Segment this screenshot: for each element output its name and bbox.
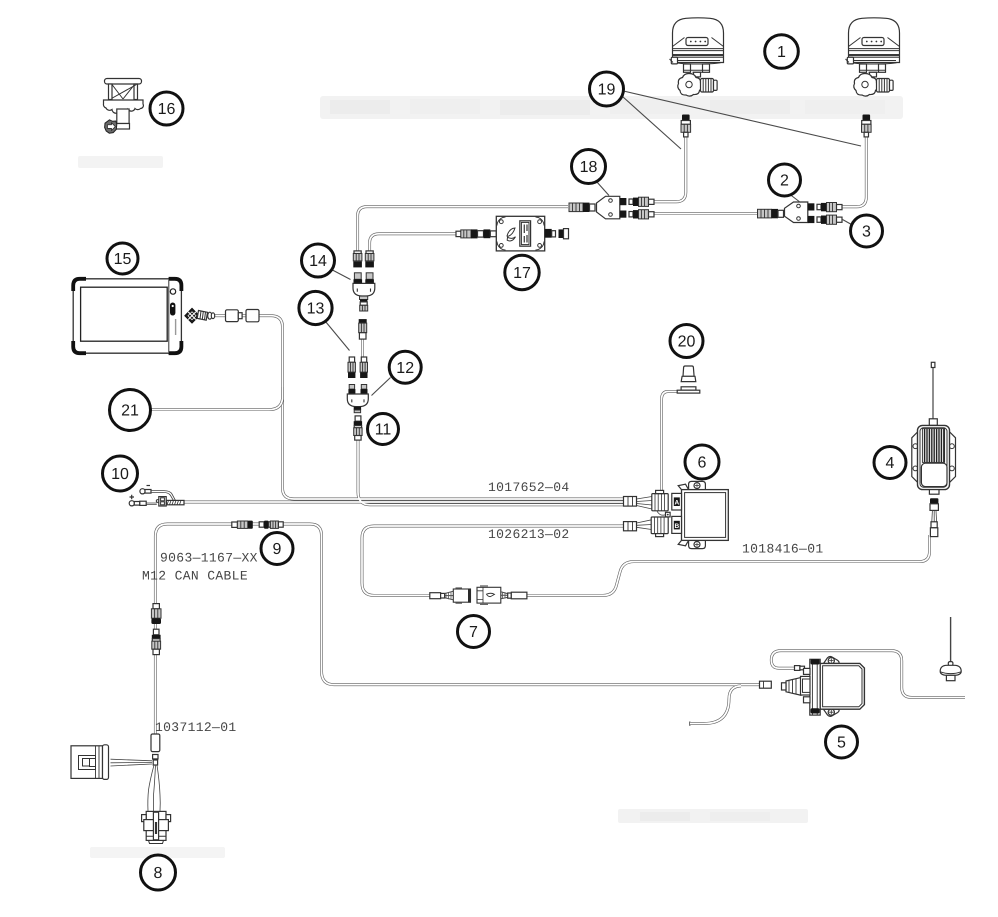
splitter 14 bottom port <box>360 296 368 299</box>
connector 3 loose mate <box>817 217 821 222</box>
harness 8 splayed wires to lamp socket <box>148 765 160 811</box>
display 15 right strip divider <box>168 280 170 352</box>
wire 1018416-01 from connector 7 to item 4 <box>525 535 930 595</box>
beacon 1 left <box>670 18 724 96</box>
wire module 17 left port to splitter 14 right port <box>370 234 458 252</box>
harness 8 inline ferrule <box>151 734 160 752</box>
connector 19 right stub <box>864 132 868 137</box>
module 6 plug B wires <box>637 520 652 530</box>
radio 4 mate plug black cap <box>930 498 938 504</box>
leader 19 to left drop <box>623 97 682 150</box>
callout 12 <box>389 351 421 383</box>
callout 7 <box>458 616 490 648</box>
watermark band top <box>320 96 903 119</box>
svg-text:19: 19 <box>598 82 616 99</box>
splitter 18 top-right mate connector <box>629 199 633 204</box>
connector 19 right cap <box>863 115 871 121</box>
svg-text:12: 12 <box>396 360 414 377</box>
module 17 body <box>496 216 544 251</box>
bracket 16 left leg <box>109 84 113 100</box>
callout 13 <box>299 291 332 324</box>
display 15 cable rings <box>208 312 212 319</box>
splitter 2 right ports <box>808 203 815 210</box>
callout 14 <box>302 244 335 277</box>
svg-text:A: A <box>674 499 679 506</box>
harness 8 upper inline connector <box>153 604 159 609</box>
connector 19 left collar <box>681 121 690 125</box>
connector 19 right ribbed body <box>862 124 872 132</box>
display 15 cable ferrite 2 <box>246 310 259 322</box>
callout 8 <box>141 855 176 890</box>
svg-text:15: 15 <box>114 251 132 268</box>
harness 8 socket keyway <box>153 812 158 840</box>
connector 7 right wire fan <box>501 592 508 599</box>
connector 11 <box>355 416 361 421</box>
splitter 2 left mate ribbed connector <box>758 209 772 218</box>
display 15 camera <box>170 289 175 294</box>
splitter 2 top-right mate connector <box>817 204 821 209</box>
svg-text:20: 20 <box>678 334 696 351</box>
svg-text:9: 9 <box>273 541 282 558</box>
radio 4 mate plug wires <box>932 511 937 522</box>
svg-text:2: 2 <box>780 173 789 190</box>
module 6 plug A boot <box>624 497 637 507</box>
antenna stem <box>946 675 955 680</box>
callout 21 <box>110 390 151 431</box>
svg-text:6: 6 <box>698 455 707 472</box>
connector 13 black band <box>348 373 355 379</box>
chain mate black band <box>360 373 367 379</box>
leader 19 to right drop <box>624 91 862 146</box>
callout 5 <box>826 726 858 758</box>
harness 8 left connector housing <box>71 746 103 779</box>
radio 4 right wing <box>949 432 955 483</box>
radio 4 mate plug body <box>930 504 938 511</box>
svg-text:B: B <box>674 523 679 530</box>
display 15 screen <box>81 287 168 341</box>
module 6 plug A pigtail <box>657 511 666 515</box>
callout 2 <box>769 164 801 196</box>
svg-text:1: 1 <box>777 44 786 61</box>
connector 13 cap <box>349 357 354 362</box>
controller 5 DB connector <box>801 676 811 695</box>
radio 4 antenna base <box>929 419 937 426</box>
svg-text:1026213—02: 1026213—02 <box>488 527 570 542</box>
callout 3 <box>851 215 883 247</box>
leader 3 <box>843 220 852 225</box>
controller 5 cable ferrule <box>760 681 772 688</box>
radio 4 grille <box>922 429 944 463</box>
module 6 plug A <box>652 494 668 511</box>
controller 5 bottom mounting ear <box>824 709 840 716</box>
leader 13 <box>326 322 350 351</box>
wire splitter 18 bottom-right to splitter 2 left <box>651 212 758 215</box>
splitter 12 top ports <box>349 385 354 390</box>
connector 7 left plug <box>453 589 470 602</box>
module 6 plug B boot <box>624 522 637 531</box>
bracket 16 knob <box>105 120 117 133</box>
radio 4 body <box>918 425 950 489</box>
wire splitter 14 chain to splitter 12 <box>361 330 364 358</box>
connector 19 left stub <box>684 132 688 137</box>
callout 6 <box>685 445 719 479</box>
battery plus lead <box>146 503 157 504</box>
leader 12 <box>372 378 391 396</box>
leader 14 <box>332 270 351 280</box>
radio 4 whip antenna <box>932 367 934 419</box>
display 15 black corner pads <box>73 279 86 291</box>
battery plus inline sleeve <box>140 501 146 505</box>
splitter 2 body <box>785 202 808 223</box>
callout 17 <box>505 255 539 289</box>
connector 9 right black band <box>264 521 269 529</box>
callout 9 <box>261 533 293 565</box>
leader 2 <box>790 195 801 203</box>
battery boot hatched <box>166 500 184 504</box>
module 6 plug B <box>651 517 668 534</box>
display 15 connector ribbed elbow <box>197 311 207 321</box>
connector 9 left collar <box>232 522 238 527</box>
antenna mount 20 flange <box>681 387 696 390</box>
battery minus ring terminal <box>140 489 145 494</box>
connector 7 right ferrule <box>508 593 512 598</box>
callout 4 <box>874 447 906 479</box>
module 17 corner tabs <box>497 217 544 250</box>
svg-text:14: 14 <box>309 253 327 270</box>
bracket 16 cross braces <box>112 85 137 100</box>
wire stub hook joining item 5 cable <box>689 722 691 726</box>
module 6 connector block B <box>672 516 682 533</box>
display 15 side label <box>175 319 177 335</box>
svg-text:16: 16 <box>158 101 176 118</box>
connector 13 ribbed body <box>348 362 355 372</box>
svg-text:18: 18 <box>580 159 598 176</box>
beacon 1 right <box>846 18 900 96</box>
bracket 16 knob arrow <box>108 123 116 131</box>
controller 5 left bracket plate <box>810 659 820 715</box>
callout 10 <box>103 456 138 491</box>
antenna mount 20 base plate <box>677 390 700 393</box>
harness 8 left connector fork slot <box>79 756 96 770</box>
connector 19 right collar <box>862 121 871 125</box>
callout 18 <box>572 150 606 184</box>
svg-text:M12 CAN CABLE: M12 CAN CABLE <box>142 569 248 584</box>
callout 19 <box>590 72 624 106</box>
chain mate cap <box>361 357 366 362</box>
svg-text:1018416—01: 1018416—01 <box>742 542 824 557</box>
controller 5 bracket corner pads <box>811 659 820 664</box>
bracket 16 stem <box>117 109 129 124</box>
module 17 logo <box>507 228 516 241</box>
wire CAN cable 9063-1167 from item 8 through connector 9 to item 5 <box>155 524 760 735</box>
connector 7 left ferrule <box>430 593 441 599</box>
splitter 14 body <box>353 283 375 296</box>
controller 5 mating plug wedge <box>786 678 801 696</box>
svg-text:8: 8 <box>154 865 163 882</box>
controller 5 main body <box>820 663 864 709</box>
connector chain lower half toward 12 <box>359 319 367 323</box>
display 15 connector diamond <box>185 308 200 323</box>
antenna cap <box>940 665 961 675</box>
bracket 16 top bar <box>105 79 142 85</box>
bracket 16 right leg <box>134 84 138 100</box>
wire 1026213-02 from module 6 plug B to connector 7 <box>362 526 624 595</box>
callout 11 <box>368 414 399 445</box>
harness 8 lower inline connector <box>153 629 159 635</box>
svg-text:4: 4 <box>886 455 895 472</box>
splitter 12 body <box>347 394 368 407</box>
connector 7 left wire fan <box>445 591 454 600</box>
antenna top nub <box>948 662 953 666</box>
harness 8 branch junction <box>153 755 158 759</box>
module 6 connector block A <box>672 493 682 510</box>
module 17 left mate connector <box>456 231 461 236</box>
svg-text:21: 21 <box>121 403 139 420</box>
svg-text:7: 7 <box>469 624 478 641</box>
wire left beacon drop to splitter 18 top-right <box>652 135 686 202</box>
svg-text:1037112—01: 1037112—01 <box>155 720 237 735</box>
module 6 plug A wires <box>637 497 653 510</box>
wire item 5 pigtail to GPS antenna <box>771 651 965 698</box>
splitter 18 bottom-right mate connector <box>629 212 633 217</box>
svg-text:17: 17 <box>513 265 531 282</box>
splitter 14 right upper mate connector <box>366 251 373 254</box>
connector 7 right housing <box>477 587 501 603</box>
wire callout 21 pigtail to display cable <box>151 387 283 410</box>
callout 16 <box>150 92 183 125</box>
splitter 18 right ports <box>620 198 627 205</box>
module 17 right port <box>545 229 552 238</box>
watermark band bottom <box>618 809 808 823</box>
bracket 16 scalloped clamp <box>103 100 143 113</box>
module 6 wing top-left <box>678 484 688 489</box>
connector 9 right ribbed body <box>270 521 278 528</box>
svg-text:5: 5 <box>837 735 846 752</box>
radio 4 left wing <box>912 432 918 483</box>
module 6 top mounting tab <box>689 481 706 489</box>
callout 15 <box>107 243 138 274</box>
splitter 14 bottom mate connector <box>360 302 367 305</box>
leader 18 <box>597 182 610 196</box>
antenna mount 20 boot upper block <box>683 366 694 376</box>
antenna mount 20 boot lower block <box>681 376 696 381</box>
svg-text:13: 13 <box>307 301 325 318</box>
display 15 power button <box>170 303 175 316</box>
battery fuse holder <box>156 500 159 503</box>
callout 20 <box>670 325 703 358</box>
connector 9 left black band <box>248 521 253 529</box>
splitter 14 left upper mate connector <box>354 251 361 254</box>
connector 9 right collar <box>259 522 264 527</box>
svg-text:1017652—04: 1017652—04 <box>488 480 570 495</box>
connector 19 left cap <box>682 115 690 121</box>
connector 9 right collar <box>278 522 283 527</box>
svg-text:11: 11 <box>375 422 392 439</box>
watermark band left <box>78 156 163 168</box>
splitter 12 bottom port <box>354 407 361 410</box>
battery minus sign <box>147 485 151 487</box>
battery plus ring terminal <box>129 501 134 506</box>
bracket 16 foot <box>114 124 130 130</box>
module 17 label <box>520 221 531 246</box>
splitter 18 left mate ribbed connector <box>569 203 583 212</box>
controller 5 top mounting ear <box>824 656 840 663</box>
radio 4 cable ferrules <box>931 522 937 528</box>
module 17 right loose mate connector <box>559 229 564 238</box>
controller 5 pigtail connector <box>795 666 800 671</box>
display 15 cable ferrite 1 <box>226 310 239 322</box>
splitter 18 body <box>597 196 620 219</box>
radio 4 bottom stub <box>929 490 939 495</box>
wire splitter 14 left port to splitter 18 left <box>358 207 568 252</box>
antenna whip <box>950 617 952 664</box>
svg-text:10: 10 <box>111 466 129 483</box>
wire bundle to module 6 plug A (display 15 / connector 11 / battery 10 cables) <box>184 316 624 505</box>
battery minus lead <box>151 491 176 502</box>
chain mate ribbed body <box>360 362 367 372</box>
harness 8 lamp socket stack <box>146 811 166 819</box>
radio 4 label panel <box>921 463 947 486</box>
module 6 body <box>682 490 729 541</box>
callout 1 <box>765 35 799 69</box>
module 6 bottom mounting tab <box>689 540 706 548</box>
wire right beacon drop to splitter 2 top-right <box>842 135 866 207</box>
svg-text:9063—1167—XX: 9063—1167—XX <box>160 551 258 566</box>
splitter 14 top ports <box>354 273 361 280</box>
battery plus sign <box>130 495 135 499</box>
connector 9 left ribbed body <box>237 521 247 528</box>
svg-text:3: 3 <box>862 224 871 241</box>
harness 8 left connector wires <box>111 759 153 766</box>
display 15 body outline <box>73 279 181 353</box>
wire antenna mount 20 to module 6 plug A top <box>662 392 679 491</box>
connector 19 left ribbed body <box>681 124 691 132</box>
module 17 left port <box>484 229 491 238</box>
